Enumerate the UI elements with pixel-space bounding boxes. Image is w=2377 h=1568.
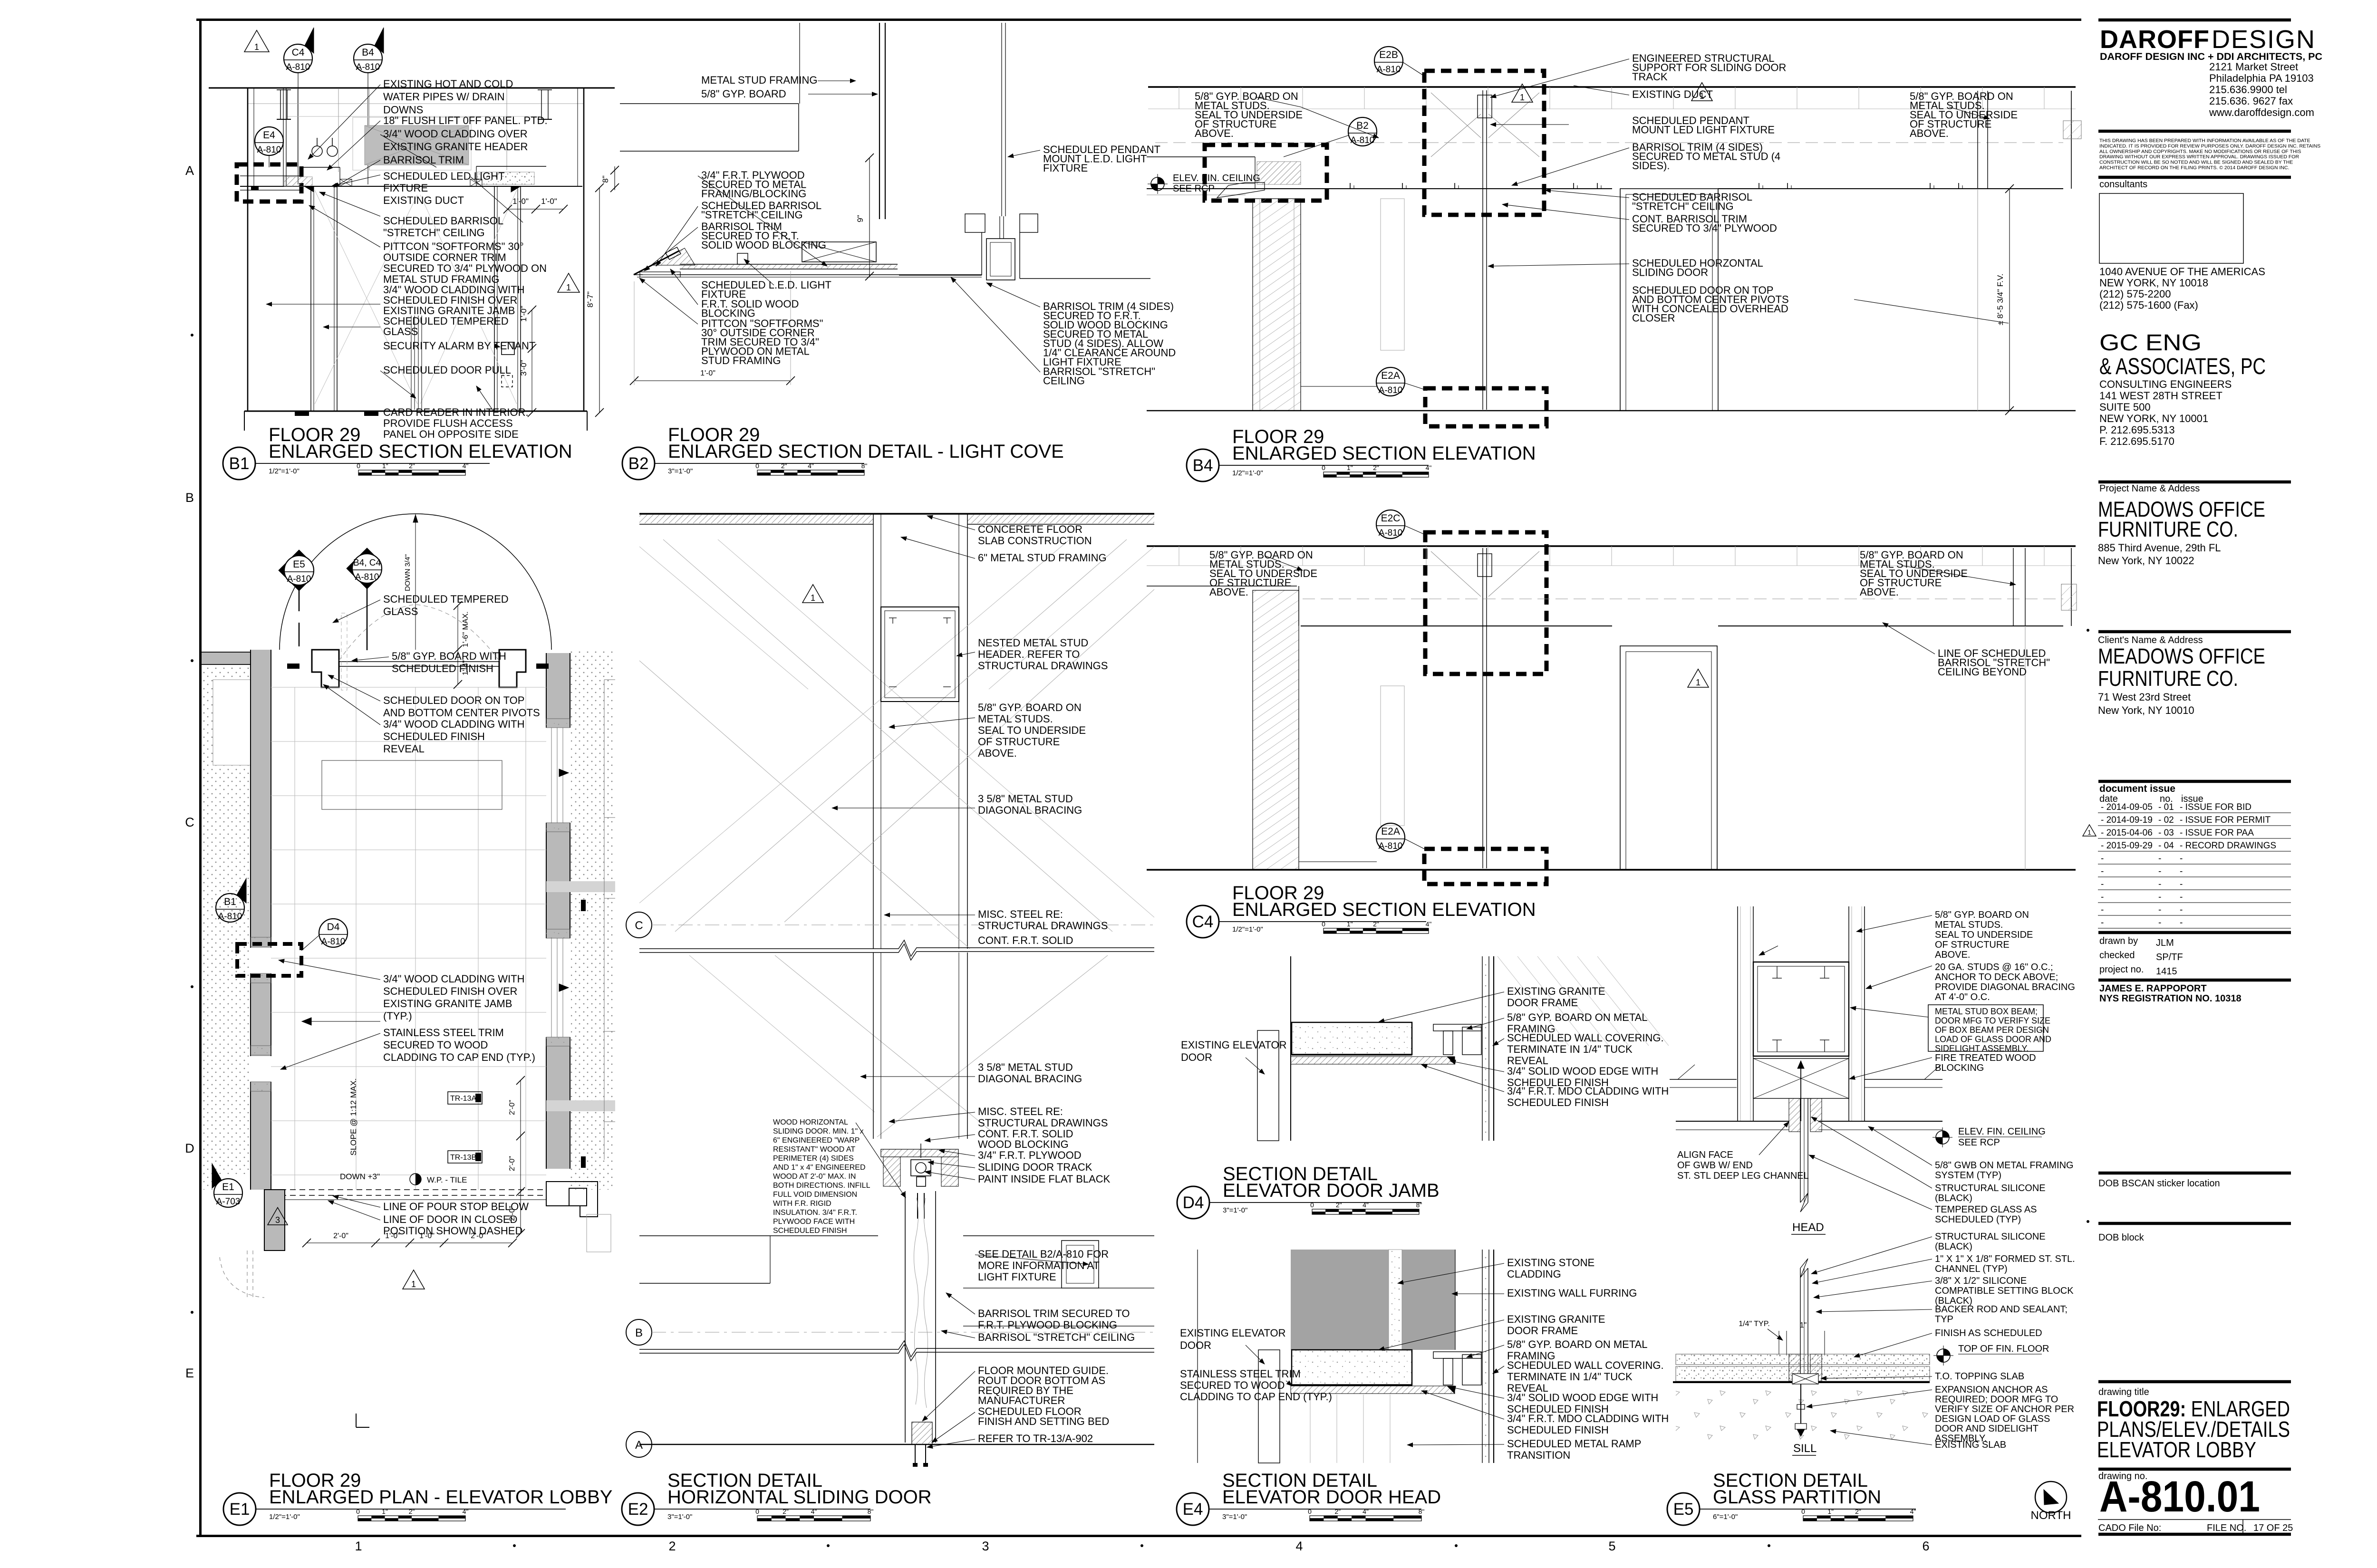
svg-text:E2A: E2A xyxy=(1381,826,1400,837)
B1 I-beam column left xyxy=(280,90,281,119)
svg-text:AND BOTTOM CENTER PIVOTS: AND BOTTOM CENTER PIVOTS xyxy=(383,707,540,719)
svg-text:SECURED TO WOOD: SECURED TO WOOD xyxy=(383,1039,488,1051)
svg-text:SCHEDULED DOOR PULL: SCHEDULED DOOR PULL xyxy=(383,364,511,376)
svg-text:ELEVATOR LOBBY: ELEVATOR LOBBY xyxy=(2097,1437,2256,1462)
E5 box beam note box xyxy=(1928,1005,2043,1051)
title block rule 10 xyxy=(2098,1222,2291,1225)
C4 triangle marker xyxy=(1688,669,1709,687)
svg-text:MISC. STEEL RE:: MISC. STEEL RE: xyxy=(978,908,1063,920)
B1 heavy dashed detail box E4 xyxy=(237,164,301,202)
B4 left wall hatched xyxy=(1253,199,1301,411)
svg-text:215.636. 9627 fax: 215.636. 9627 fax xyxy=(2209,95,2293,107)
C4 floor line xyxy=(1147,869,2076,871)
svg-text:SCHEDULED WALL COVERING.: SCHEDULED WALL COVERING. xyxy=(1507,1032,1664,1044)
B1 existing wall left xyxy=(247,88,249,411)
E1 existing wall dotted right xyxy=(570,650,615,1190)
svg-text:FIXTURE: FIXTURE xyxy=(1043,162,1088,174)
E1 callout B1/A-810 flag xyxy=(216,894,244,922)
svg-text:A-810: A-810 xyxy=(1379,385,1403,395)
svg-text:SEAL TO UNDERSIDE: SEAL TO UNDERSIDE xyxy=(1935,930,2033,940)
svg-text:HEAD: HEAD xyxy=(1792,1221,1824,1234)
B4 existing duct dashed centerline xyxy=(1155,142,2063,143)
svg-text:T.O. TOPPING SLAB: T.O. TOPPING SLAB xyxy=(1935,1371,2024,1382)
B1 floor line xyxy=(244,411,587,412)
svg-text:2'-0": 2'-0" xyxy=(333,1232,348,1240)
svg-text:0: 0 xyxy=(357,462,360,470)
title block top rule xyxy=(2098,19,2291,22)
title block rule 6 xyxy=(2098,780,2291,783)
E1 right wall xyxy=(546,653,570,1169)
svg-text:E1: E1 xyxy=(222,1182,234,1193)
svg-text:(TYP.): (TYP.) xyxy=(383,1010,412,1022)
svg-text:CADO File No:: CADO File No: xyxy=(2098,1523,2161,1533)
B4 callout B2/A-810 xyxy=(1348,117,1377,146)
svg-text:P. 212.695.5313: P. 212.695.5313 xyxy=(2099,424,2175,436)
svg-text:C4: C4 xyxy=(1192,913,1214,931)
svg-text:B2: B2 xyxy=(628,454,649,473)
svg-text:STRUCTURAL DRAWINGS: STRUCTURAL DRAWINGS xyxy=(978,660,1108,672)
E2 section marker A xyxy=(626,1432,652,1457)
svg-text:CHANNEL (TYP): CHANNEL (TYP) xyxy=(1935,1264,2008,1274)
E1 top wall assembly left xyxy=(312,650,339,687)
E2 diagonal bracing lower xyxy=(775,955,998,1137)
svg-text:ABOVE.: ABOVE. xyxy=(978,747,1017,759)
svg-text:WOOD HORIZONTAL: WOOD HORIZONTAL xyxy=(773,1118,848,1126)
B4 track support diagonals xyxy=(1431,93,1481,138)
svg-text:SCHEDULED FINISH: SCHEDULED FINISH xyxy=(773,1227,847,1235)
svg-text:FRAMING/BLOCKING: FRAMING/BLOCKING xyxy=(701,188,806,200)
svg-text:PANEL OH OPPOSITE SIDE: PANEL OH OPPOSITE SIDE xyxy=(383,428,519,440)
B4 title xyxy=(1187,449,1219,481)
svg-text:SLIDING DOOR: SLIDING DOOR xyxy=(1632,267,1708,279)
svg-text:BLOCKING: BLOCKING xyxy=(1935,1063,1984,1073)
svg-text:0: 0 xyxy=(1322,464,1325,471)
svg-text:SOLID WOOD BLOCKING: SOLID WOOD BLOCKING xyxy=(701,239,826,251)
svg-text:-: - xyxy=(2158,918,2161,928)
svg-text:1415: 1415 xyxy=(2156,966,2177,977)
svg-text:A-810: A-810 xyxy=(1379,841,1403,851)
svg-text:F.R.T. PLYWOOD BLOCKING: F.R.T. PLYWOOD BLOCKING xyxy=(978,1319,1117,1331)
svg-text:New York, NY 10022: New York, NY 10022 xyxy=(2098,555,2194,567)
svg-text:(212) 575-1600 (Fax): (212) 575-1600 (Fax) xyxy=(2099,299,2198,311)
B1 ceiling line xyxy=(240,186,582,187)
svg-text:A: A xyxy=(635,1439,643,1452)
svg-text:& ASSOCIATES, PC: & ASSOCIATES, PC xyxy=(2099,354,2266,379)
svg-text:HEADER. REFER TO: HEADER. REFER TO xyxy=(978,648,1080,660)
svg-text:EXISTING ELEVATOR: EXISTING ELEVATOR xyxy=(1181,1039,1287,1051)
svg-text:3"=1'-0": 3"=1'-0" xyxy=(1223,1206,1247,1214)
svg-text:CLADDING: CLADDING xyxy=(1507,1268,1561,1280)
svg-text:CEILING: CEILING xyxy=(1043,375,1085,387)
B1 callout C4/A-810 xyxy=(284,44,312,73)
svg-text:DESIGN: DESIGN xyxy=(2212,25,2316,54)
svg-text:4": 4" xyxy=(811,1508,817,1515)
svg-text:EXISTING ELEVATOR: EXISTING ELEVATOR xyxy=(1180,1327,1286,1339)
svg-text:NEW YORK, NY 10001: NEW YORK, NY 10001 xyxy=(2099,413,2208,424)
E2 section marker C xyxy=(626,912,652,938)
svg-text:0: 0 xyxy=(1310,1201,1314,1209)
svg-text:LINE OF DOOR IN CLOSED: LINE OF DOOR IN CLOSED xyxy=(383,1213,517,1225)
E5 head glass xyxy=(1800,1098,1801,1202)
title block rule 12 xyxy=(2098,1468,2291,1471)
svg-text:ENLARGED SECTION DETAIL - LIGH: ENLARGED SECTION DETAIL - LIGHT COVE xyxy=(668,441,1064,462)
D4 right wall xyxy=(1482,956,1483,1141)
svg-text:-: - xyxy=(2158,866,2161,876)
svg-text:METAL STUDS.: METAL STUDS. xyxy=(1935,920,2003,930)
svg-text:0: 0 xyxy=(356,1508,360,1515)
svg-text:E: E xyxy=(185,1366,194,1380)
E5 sill glass xyxy=(1800,1268,1801,1381)
svg-text:FIXTURE: FIXTURE xyxy=(383,182,428,194)
svg-text:71 West 23rd Street: 71 West 23rd Street xyxy=(2098,691,2191,703)
svg-text:2": 2" xyxy=(409,462,415,470)
svg-text:DOWN +3": DOWN +3" xyxy=(340,1172,380,1181)
B4 left cove shapes xyxy=(1257,162,1301,184)
E1 callout B4,C4/A-810 flag xyxy=(347,548,377,589)
E1 TR-13B box xyxy=(448,1151,482,1163)
svg-text:BACKER ROD AND SEALANT;: BACKER ROD AND SEALANT; xyxy=(1935,1304,2068,1315)
E5 sill shoe xyxy=(1789,1354,1800,1381)
D4 wood cladding strip xyxy=(1291,1057,1454,1064)
svg-text:2121 Market Street: 2121 Market Street xyxy=(2209,61,2298,73)
svg-text:E2: E2 xyxy=(628,1500,648,1519)
E5 head silicone pockets xyxy=(1789,1098,1800,1132)
svg-text:E1: E1 xyxy=(230,1500,250,1519)
B4 callout E2A/A-810 xyxy=(1376,367,1405,396)
title block rule 2 xyxy=(2098,130,2291,133)
svg-text:4": 4" xyxy=(463,1508,469,1515)
svg-text:MORE INFORMATION AT: MORE INFORMATION AT xyxy=(978,1260,1100,1271)
svg-text:ABOVE.: ABOVE. xyxy=(1935,950,1970,960)
svg-text:OF GWB W/ END: OF GWB W/ END xyxy=(1677,1160,1753,1171)
C4 ceiling line xyxy=(1301,625,1612,626)
B1 callout B4/A-810 xyxy=(354,44,382,73)
svg-text:-: - xyxy=(2180,892,2183,902)
svg-text:-: - xyxy=(2101,879,2104,889)
svg-text:- ISSUE FOR PERMIT: - ISSUE FOR PERMIT xyxy=(2180,815,2271,825)
svg-text:ANCHOR TO DECK ABOVE;: ANCHOR TO DECK ABOVE; xyxy=(1935,972,2058,982)
svg-text:CONSULTING ENGINEERS: CONSULTING ENGINEERS xyxy=(2099,378,2232,390)
svg-text:ST. STL DEEP LEG CHANNEL: ST. STL DEEP LEG CHANNEL xyxy=(1677,1171,1809,1181)
svg-text:A-810: A-810 xyxy=(321,937,346,947)
svg-text:ALIGN FACE: ALIGN FACE xyxy=(1677,1150,1733,1160)
svg-text:SCHEDULED BARRISOL: SCHEDULED BARRISOL xyxy=(383,215,503,227)
svg-text:- 04: - 04 xyxy=(2158,841,2174,851)
B4 door track vertical xyxy=(1482,90,1483,410)
svg-text:DESIGN LOAD OF GLASS: DESIGN LOAD OF GLASS xyxy=(1935,1414,2050,1424)
svg-text:- 2014-09-05: - 2014-09-05 xyxy=(2101,802,2153,812)
C4 left upper ceiling xyxy=(1147,586,1297,587)
svg-text:A-810: A-810 xyxy=(257,145,281,155)
E1 existing wall grey band top left xyxy=(202,652,271,664)
svg-text:PLYWOOD FACE WITH: PLYWOOD FACE WITH xyxy=(773,1218,855,1226)
C4 title xyxy=(1187,905,1219,938)
B1 card reader dashed box xyxy=(502,375,512,387)
svg-text:1": 1" xyxy=(1827,1508,1834,1515)
svg-text:-: - xyxy=(2180,879,2183,889)
C4 hanger ticks top band xyxy=(1179,546,1179,566)
B4 left dashed box xyxy=(1205,145,1327,201)
svg-text:C: C xyxy=(635,919,643,932)
svg-text:A-810: A-810 xyxy=(286,62,310,72)
svg-text:NEW YORK, NY 10018: NEW YORK, NY 10018 xyxy=(2099,277,2208,289)
svg-text:8": 8" xyxy=(868,1508,874,1515)
D4 elevator door leaf xyxy=(1257,1030,1279,1141)
B1 security alarm box xyxy=(502,342,514,355)
B2 wood blocking x-box xyxy=(802,242,876,262)
svg-text:W.P. - TILE: W.P. - TILE xyxy=(427,1175,467,1184)
title block bottom strip xyxy=(2098,1519,2291,1520)
E2 floor line xyxy=(639,1444,1154,1445)
svg-text:MISC. STEEL RE:: MISC. STEEL RE: xyxy=(978,1106,1063,1117)
B4 top structure line xyxy=(1148,86,2076,88)
svg-text:A-810: A-810 xyxy=(355,572,379,582)
B1 callout E4/A-810 xyxy=(255,127,283,155)
B1 dimension line right 8ft7 xyxy=(599,188,600,413)
svg-text:SCHEDULED FINISH: SCHEDULED FINISH xyxy=(1507,1424,1609,1436)
svg-text:3/4" WOOD CLADDING WITH: 3/4" WOOD CLADDING WITH xyxy=(383,718,525,730)
north arrow xyxy=(2035,1481,2067,1513)
svg-text:ENLARGED SECTION ELEVATION: ENLARGED SECTION ELEVATION xyxy=(1232,899,1536,920)
svg-text:E5: E5 xyxy=(293,559,305,570)
C4 barrisol dashed centerline xyxy=(1303,598,2063,599)
svg-text:SCHEDULED FINISH OVER: SCHEDULED FINISH OVER xyxy=(383,985,517,997)
svg-text:SEE DETAIL B2/A-810 FOR: SEE DETAIL B2/A-810 FOR xyxy=(978,1248,1109,1260)
svg-text:EXISTING SLAB: EXISTING SLAB xyxy=(1935,1440,2006,1450)
svg-text:FILE NO.: FILE NO. xyxy=(2207,1523,2246,1533)
svg-text:215.636.9900 tel: 215.636.9900 tel xyxy=(2209,84,2287,96)
B2 ceiling right of cove xyxy=(965,214,985,232)
svg-text:ALL OWNERSHIP AND COPYRIGHT: ALL OWNERSHIP AND COPYRIGHTS. MAKE NO MO… xyxy=(2099,149,2301,154)
B1 I-beam column right xyxy=(541,90,542,119)
svg-text:1": 1" xyxy=(1347,920,1353,928)
svg-text:REVEAL: REVEAL xyxy=(383,743,425,755)
svg-text:WOOD AT 2'-0" MAX. IN: WOOD AT 2'-0" MAX. IN xyxy=(773,1173,856,1181)
E1 existing wall dotted left xyxy=(202,666,251,1190)
svg-text:A-810: A-810 xyxy=(1351,135,1375,145)
C4 interior door elevation faint xyxy=(1381,686,1404,826)
svg-text:ENLARGED PLAN - ELEVATOR LOBBY: ENLARGED PLAN - ELEVATOR LOBBY xyxy=(269,1487,612,1508)
svg-text:EXISTING GRANITE JAMB: EXISTING GRANITE JAMB xyxy=(383,998,512,1010)
svg-text:DOB block: DOB block xyxy=(2098,1232,2145,1243)
svg-text:SLOPE @ 1:12 MAX.: SLOPE @ 1:12 MAX. xyxy=(349,1078,358,1156)
svg-text:3 5/8" METAL STUD: 3 5/8" METAL STUD xyxy=(978,1061,1073,1073)
E5 elev fin ceiling symbol xyxy=(1936,1131,1949,1144)
svg-text:DOB BSCAN sticker location: DOB BSCAN sticker location xyxy=(2098,1178,2220,1189)
svg-text:TEMPERED GLASS AS: TEMPERED GLASS AS xyxy=(1935,1204,2037,1215)
svg-text:CEILING BEYOND: CEILING BEYOND xyxy=(1938,666,2027,678)
E1 elevator shaft outline xyxy=(604,680,605,1160)
svg-text:TYP: TYP xyxy=(1935,1314,1953,1325)
B2 title xyxy=(622,447,655,480)
svg-text:WATER PIPES W/ DRAIN: WATER PIPES W/ DRAIN xyxy=(383,91,504,103)
B4 ceiling line xyxy=(1147,188,1612,189)
E1 triangle marker 1 xyxy=(403,1270,425,1289)
svg-text:-: - xyxy=(2180,854,2183,864)
E4 elevator door leaf xyxy=(1258,1350,1280,1463)
svg-text:D4: D4 xyxy=(327,922,340,933)
svg-text:STAINLESS STEEL TRIM: STAINLESS STEEL TRIM xyxy=(383,1027,504,1039)
E4 granite header speckled xyxy=(1292,1350,1412,1385)
svg-text:1/2"=1'-0": 1/2"=1'-0" xyxy=(269,467,300,475)
E1 callout E1/A-703 flag xyxy=(214,1179,242,1207)
svg-text:D4: D4 xyxy=(1183,1193,1204,1212)
svg-text:NYS REGISTRATION NO. 10318: NYS REGISTRATION NO. 10318 xyxy=(2099,993,2242,1004)
svg-text:STRUCTURAL SILICONE: STRUCTURAL SILICONE xyxy=(1935,1183,2046,1193)
svg-text:2": 2" xyxy=(1334,1508,1341,1515)
E4 wall verticals right xyxy=(1482,1250,1483,1463)
svg-text:ELEVATOR DOOR HEAD: ELEVATOR DOOR HEAD xyxy=(1222,1487,1441,1508)
B1 leaders xyxy=(308,85,380,159)
sheet border frame xyxy=(196,19,2081,21)
E1 title xyxy=(223,1493,256,1525)
B1 triangle marker 1 right xyxy=(558,273,580,292)
B2 right wall vertical xyxy=(1001,23,1002,216)
svg-text:E5: E5 xyxy=(1673,1500,1694,1519)
svg-text:3/4" SOLID WOOD EDGE WITH: 3/4" SOLID WOOD EDGE WITH xyxy=(1507,1065,1658,1077)
E5 existing slab concrete xyxy=(1676,1384,1930,1444)
svg-text:DOOR: DOOR xyxy=(1181,1051,1212,1063)
svg-text:SECURED TO WOOD: SECURED TO WOOD xyxy=(1180,1379,1285,1391)
B1 existing wall right xyxy=(583,88,585,411)
svg-text:PROVIDE FLUSH ACCESS: PROVIDE FLUSH ACCESS xyxy=(383,417,513,429)
svg-text:6"=1'-0": 6"=1'-0" xyxy=(1713,1513,1738,1521)
svg-text:REFER TO TR-13/A-902: REFER TO TR-13/A-902 xyxy=(978,1433,1093,1444)
E5 leaders right xyxy=(1856,915,1932,932)
svg-text:18" FLUSH LIFT 0FF PANEL. PTD.: 18" FLUSH LIFT 0FF PANEL. PTD. xyxy=(383,115,548,126)
svg-text:TR-13B: TR-13B xyxy=(450,1154,476,1162)
svg-text:B1: B1 xyxy=(229,454,250,473)
svg-text:REQUIRED; DOOR MFG TO: REQUIRED; DOOR MFG TO xyxy=(1935,1395,2058,1405)
svg-text:± 8'-5 3/4" F.V.: ± 8'-5 3/4" F.V. xyxy=(1996,274,2005,326)
svg-text:(212) 575-2200: (212) 575-2200 xyxy=(2099,288,2171,300)
B2 wall above left xyxy=(799,23,800,104)
C4 right wall verticals xyxy=(2013,548,2014,626)
E1 heavy dashed box D4 xyxy=(237,944,301,976)
svg-text:- 2015-09-29: - 2015-09-29 xyxy=(2101,841,2153,851)
svg-text:1": 1" xyxy=(382,1508,388,1515)
svg-text:2": 2" xyxy=(1855,1508,1861,1515)
D4 granite header xyxy=(1292,1022,1412,1055)
E4 title xyxy=(1177,1493,1209,1525)
B1 title xyxy=(223,447,255,480)
D4 leaders xyxy=(1379,992,1504,1022)
svg-text:SIDES).: SIDES). xyxy=(1632,160,1670,172)
svg-text:1/4" TYP.: 1/4" TYP. xyxy=(1739,1320,1770,1328)
svg-text:3 5/8" METAL STUD: 3 5/8" METAL STUD xyxy=(978,793,1073,805)
svg-text:9": 9" xyxy=(856,215,865,222)
E1 shaft side black ticks xyxy=(581,900,586,911)
title block rule 8 xyxy=(2098,979,2291,982)
E5 fire treated wood blocking xbox xyxy=(1753,1058,1849,1098)
E1 top wall assembly right xyxy=(499,650,526,687)
svg-text:20 GA. STUDS @ 16" O.C.;: 20 GA. STUDS @ 16" O.C.; xyxy=(1935,962,2053,972)
svg-text:"STRETCH" CEILING: "STRETCH" CEILING xyxy=(701,209,803,221)
E5 sill heavy slab line xyxy=(1673,1381,1930,1383)
svg-text:- RECORD DRAWINGS: - RECORD DRAWINGS xyxy=(2180,841,2276,851)
svg-text:-: - xyxy=(2101,918,2104,928)
svg-text:GLASS: GLASS xyxy=(383,606,418,617)
svg-text:INDICATED. IT IS PROVIDED: INDICATED. IT IS PROVIDED FOR REVIEW PUR… xyxy=(2099,143,2320,149)
svg-text:-: - xyxy=(2180,866,2183,876)
svg-text:ABOVE.: ABOVE. xyxy=(1209,586,1248,598)
svg-text:SCHEDULED FINISH: SCHEDULED FINISH xyxy=(392,663,493,674)
E1 entry door plan xyxy=(339,661,499,662)
svg-text:1: 1 xyxy=(1696,678,1701,687)
svg-text:-: - xyxy=(2158,905,2161,915)
svg-text:JLM: JLM xyxy=(2156,938,2174,948)
B1 cove x-blocks xyxy=(340,179,352,186)
svg-text:6: 6 xyxy=(1922,1539,1929,1553)
E2 door bottom guide xyxy=(912,1422,932,1444)
svg-text:DIAGONAL BRACING: DIAGONAL BRACING xyxy=(978,804,1082,816)
E1 left wall xyxy=(251,650,271,1190)
svg-text:-: - xyxy=(2101,866,2104,876)
svg-text:-: - xyxy=(2158,892,2161,902)
svg-text:checked: checked xyxy=(2099,950,2135,961)
svg-text:THIS DRAWING HAS BEEN PREP: THIS DRAWING HAS BEEN PREPARED WITH INFO… xyxy=(2099,138,2310,144)
svg-text:CLOSER: CLOSER xyxy=(1632,312,1675,324)
svg-text:SCHEDULED WALL COVERING.: SCHEDULED WALL COVERING. xyxy=(1507,1359,1664,1371)
svg-text:A-810: A-810 xyxy=(1377,65,1401,75)
svg-text:5/8" GYP. BOARD ON METAL: 5/8" GYP. BOARD ON METAL xyxy=(1507,1338,1648,1350)
E1 triangle marker 3 xyxy=(268,1207,288,1225)
svg-text:2": 2" xyxy=(1373,920,1379,928)
svg-text:1: 1 xyxy=(254,42,259,52)
svg-text:POSITION SHOWN DASHED: POSITION SHOWN DASHED xyxy=(383,1225,522,1237)
E1 ceiling soffit rectangle xyxy=(322,760,502,809)
svg-text:STRUCTURAL DRAWINGS: STRUCTURAL DRAWINGS xyxy=(978,1117,1108,1129)
svg-text:WOOD BLOCKING: WOOD BLOCKING xyxy=(978,1138,1069,1150)
svg-text:SEAL TO UNDERSIDE: SEAL TO UNDERSIDE xyxy=(978,724,1086,736)
svg-text:A-810: A-810 xyxy=(287,574,311,584)
B1 dashed box interior existing wall layers xyxy=(240,175,300,176)
C4 callout E2A/A-810 xyxy=(1376,823,1405,852)
B4 floor line xyxy=(1147,410,2076,412)
svg-text:2": 2" xyxy=(781,462,787,470)
E2 wall studs verticals xyxy=(873,514,874,949)
svg-text:AT 4'-0" O.C.: AT 4'-0" O.C. xyxy=(1935,992,1990,1002)
B2 pendant fixture xyxy=(986,239,1015,280)
svg-text:-: - xyxy=(2101,854,2104,864)
svg-text:MANUFACTURER: MANUFACTURER xyxy=(978,1395,1065,1406)
svg-text:drawn by: drawn by xyxy=(2099,936,2138,946)
title block rule 4 xyxy=(2098,481,2291,484)
svg-text:8": 8" xyxy=(1419,1508,1425,1515)
svg-text:EXISTING STONE: EXISTING STONE xyxy=(1507,1257,1594,1269)
svg-text:5/8" GWB ON METAL FRAMING: 5/8" GWB ON METAL FRAMING xyxy=(1935,1160,2074,1171)
svg-text:2": 2" xyxy=(783,1508,789,1515)
E1 column line mark xyxy=(356,1414,357,1427)
svg-text:SCHEDULED FINISH: SCHEDULED FINISH xyxy=(383,731,485,742)
svg-text:17 OF 25: 17 OF 25 xyxy=(2253,1523,2293,1533)
E2 floor slab line top xyxy=(639,513,1154,515)
svg-text:(BLACK): (BLACK) xyxy=(1935,1193,1972,1203)
E2 leaders right xyxy=(927,516,975,530)
svg-text:SUITE 500: SUITE 500 xyxy=(2099,401,2151,413)
E1 dim right 2ft xyxy=(520,1080,521,1233)
svg-text:1'-0": 1'-0" xyxy=(700,369,715,377)
svg-text:LOAD OF GLASS DOOR AND: LOAD OF GLASS DOOR AND xyxy=(1935,1035,2051,1044)
svg-text:1'-0": 1'-0" xyxy=(512,197,529,206)
svg-text:JAMES E. RAPPOPORT: JAMES E. RAPPOPORT xyxy=(2099,983,2207,994)
svg-text:141 WEST 28TH STREET: 141 WEST 28TH STREET xyxy=(2099,390,2222,402)
svg-text:DAROFF: DAROFF xyxy=(2100,25,2210,54)
consultants box xyxy=(2099,193,2243,263)
E2 nested metal stud header xyxy=(881,607,959,702)
svg-text:-: - xyxy=(2101,905,2104,915)
svg-text:(BLACK): (BLACK) xyxy=(1935,1241,1972,1252)
